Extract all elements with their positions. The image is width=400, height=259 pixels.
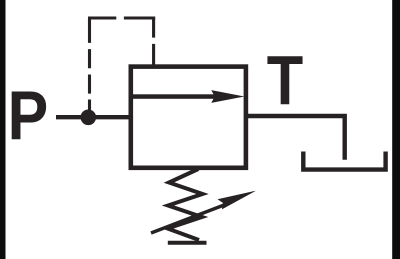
wire: P supply line: [56, 115, 132, 119]
right edge bar: [392, 0, 400, 259]
tank symbol: [303, 152, 385, 170]
wire: T return line to tank: [248, 116, 345, 160]
adjustment arrow across spring: [151, 191, 256, 233]
port label T: [267, 41, 304, 120]
flow path arrow inside valve: [133, 90, 244, 103]
valve envelope (square body): [131, 67, 246, 168]
svg-text:T: T: [267, 41, 304, 120]
spring (adjustable relief spring): [168, 169, 203, 240]
wire: pilot line (dashed), up from junction then right then down to valve top: [88, 18, 155, 113]
svg-text:P: P: [8, 76, 49, 154]
left edge bar: [0, 0, 6, 259]
port label P: [8, 76, 49, 154]
node: pilot junction dot: [81, 110, 97, 126]
spring foot: [168, 241, 207, 245]
